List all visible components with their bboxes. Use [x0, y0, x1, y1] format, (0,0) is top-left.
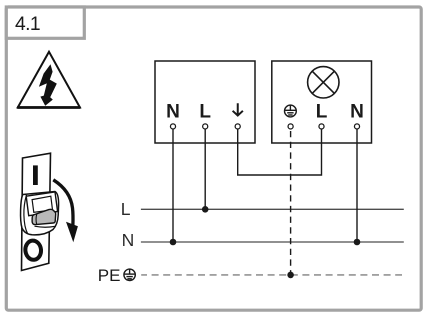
wire L (sensor) to L bus — [204, 129, 206, 209]
junction dot lamp N — [354, 239, 361, 246]
svg-text:N: N — [122, 230, 135, 250]
terminal L pin — [203, 124, 208, 129]
wire switched output to lamp L — [238, 129, 322, 175]
terminal arrow pin — [235, 124, 240, 129]
svg-text:N: N — [166, 102, 180, 123]
terminal N pin — [170, 124, 175, 129]
wire lamp PE to PE bus (dashed) — [290, 131, 292, 275]
PE bus line (dashed) — [141, 274, 402, 276]
lightning bolt — [39, 64, 57, 106]
N bus line — [141, 241, 404, 243]
earth symbol at PE bus — [124, 269, 135, 280]
earth symbol in box — [285, 105, 297, 117]
switch symbol body — [22, 153, 51, 270]
terminal label arrow-down — [232, 103, 244, 117]
svg-text:4.1: 4.1 — [15, 14, 40, 35]
junction dot PE bus — [287, 272, 294, 279]
figure label box 4.1 — [6, 7, 84, 38]
junction dot L bus — [202, 206, 209, 213]
knob bottom lip — [35, 226, 56, 227]
knob left cap inner arc — [24, 195, 28, 234]
switch lever handle — [32, 209, 56, 224]
svg-text:L: L — [316, 102, 328, 123]
lever cap face line — [35, 214, 38, 225]
rotation arrow — [53, 180, 73, 225]
L bus line — [141, 208, 404, 210]
terminal N pin (lamp) — [354, 124, 359, 129]
svg-text:L: L — [199, 102, 211, 123]
lamp symbol — [308, 67, 339, 98]
terminal PE pin — [288, 124, 293, 129]
switch O marking — [24, 240, 42, 261]
wire N (sensor) to N bus — [172, 129, 174, 242]
switch knob cylinder — [21, 192, 59, 235]
triangle base accent — [17, 106, 80, 109]
junction dot N bus — [170, 239, 177, 246]
switch rocker plate — [26, 192, 57, 216]
device box (sensor) — [155, 61, 255, 143]
switch I marking — [33, 165, 38, 185]
wire lamp N to N bus — [356, 129, 358, 242]
svg-text:L: L — [121, 199, 131, 219]
svg-text:PE: PE — [98, 266, 121, 285]
terminal L pin (lamp) — [319, 124, 324, 129]
warning triangle — [18, 52, 80, 108]
lamp box — [272, 61, 372, 143]
svg-text:N: N — [350, 102, 364, 123]
